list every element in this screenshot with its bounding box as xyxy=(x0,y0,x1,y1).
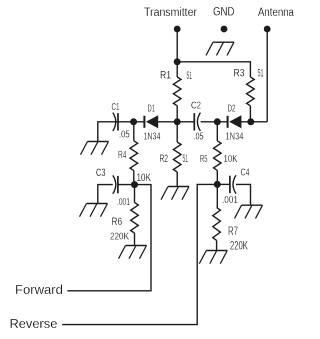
svg-text:Reverse: Reverse xyxy=(10,316,58,331)
svg-text:C1: C1 xyxy=(112,100,120,112)
svg-text:R6: R6 xyxy=(112,216,123,228)
svg-text:R7: R7 xyxy=(228,225,238,238)
svg-text:10K: 10K xyxy=(224,153,239,164)
svg-text:.05: .05 xyxy=(119,128,130,139)
svg-text:Antenna: Antenna xyxy=(258,6,295,19)
svg-text:51: 51 xyxy=(258,66,264,79)
svg-text:R3: R3 xyxy=(234,68,245,80)
svg-text:R1: R1 xyxy=(160,70,171,82)
svg-text:220K: 220K xyxy=(110,229,130,241)
svg-text:R5: R5 xyxy=(200,154,208,165)
svg-text:C3: C3 xyxy=(96,165,106,178)
svg-text:C2: C2 xyxy=(191,100,201,111)
svg-text:R2: R2 xyxy=(160,153,169,165)
svg-text:GND: GND xyxy=(213,5,235,18)
svg-text:Transmitter: Transmitter xyxy=(144,6,197,19)
svg-text:.001: .001 xyxy=(117,195,130,207)
svg-text:.001: .001 xyxy=(222,193,238,205)
svg-text:.05: .05 xyxy=(194,130,204,142)
svg-text:D2: D2 xyxy=(228,102,236,114)
svg-text:51: 51 xyxy=(187,69,193,82)
svg-text:C4: C4 xyxy=(241,166,250,178)
svg-text:220K: 220K xyxy=(230,240,248,253)
svg-text:D1: D1 xyxy=(148,103,156,114)
svg-text:1N34: 1N34 xyxy=(226,130,244,141)
svg-text:R4: R4 xyxy=(118,149,127,161)
svg-text:10K: 10K xyxy=(137,172,152,185)
svg-text:1N34: 1N34 xyxy=(144,130,161,142)
svg-text:Forward: Forward xyxy=(15,282,63,297)
svg-text:51: 51 xyxy=(183,152,189,165)
